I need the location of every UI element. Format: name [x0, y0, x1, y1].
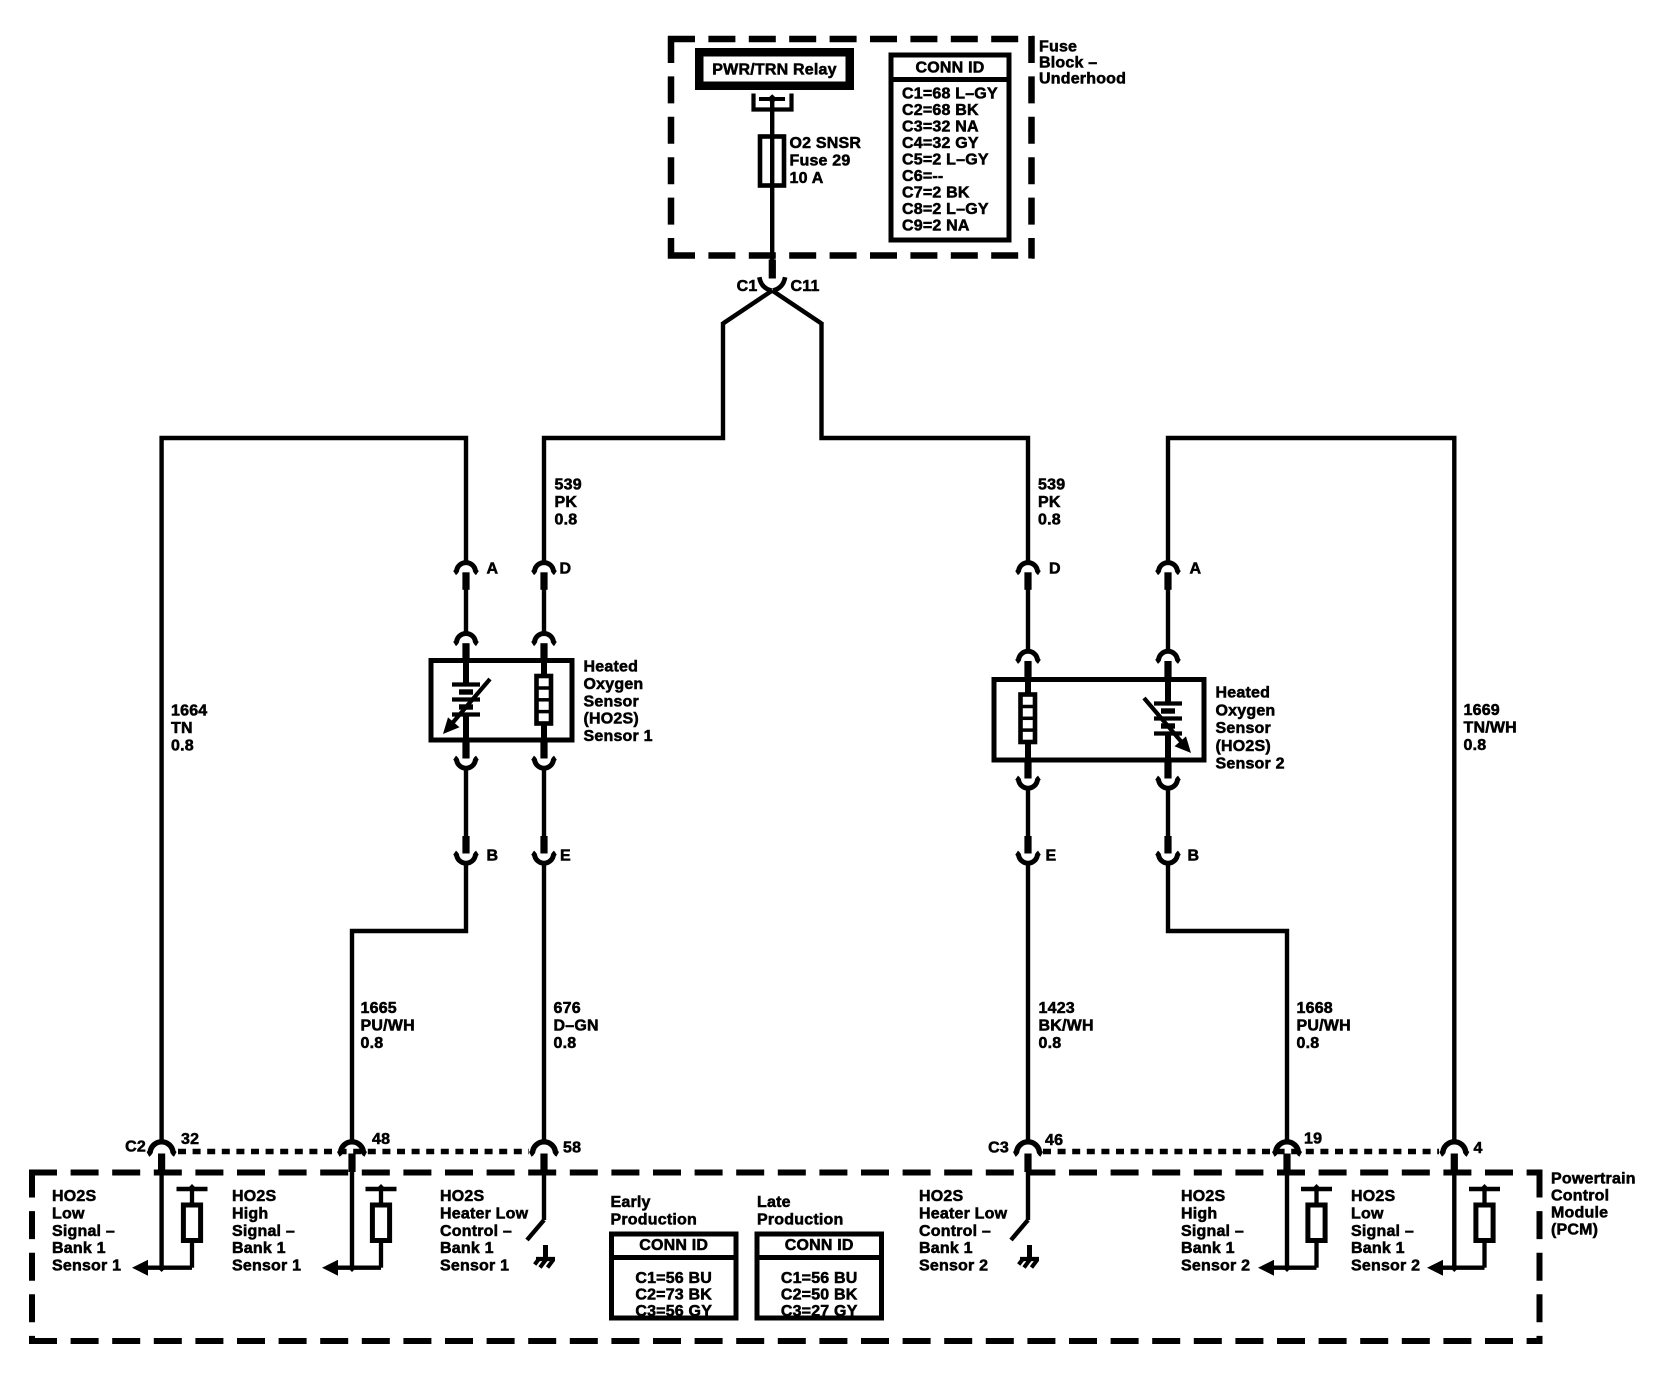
- svg-text:B: B: [487, 848, 499, 865]
- svg-text:C1=56 BU: C1=56 BU: [635, 1270, 712, 1287]
- svg-text:PWR/TRN Relay: PWR/TRN Relay: [712, 62, 836, 79]
- svg-text:Fuse: Fuse: [1039, 39, 1077, 56]
- svg-text:Sensor 1: Sensor 1: [52, 1257, 121, 1274]
- svg-text:(HO2S): (HO2S): [584, 711, 639, 728]
- svg-text:Sensor 1: Sensor 1: [232, 1257, 301, 1274]
- svg-text:HO2S: HO2S: [1181, 1188, 1225, 1205]
- svg-text:Signal –: Signal –: [232, 1223, 295, 1240]
- svg-text:C11: C11: [791, 278, 820, 295]
- svg-text:Sensor: Sensor: [1216, 720, 1271, 737]
- svg-text:Early: Early: [611, 1194, 651, 1211]
- svg-text:539: 539: [555, 477, 582, 494]
- svg-text:Bank 1: Bank 1: [1351, 1240, 1405, 1257]
- svg-text:HO2S: HO2S: [919, 1188, 963, 1205]
- svg-text:(PCM): (PCM): [1551, 1222, 1598, 1239]
- svg-text:PK: PK: [555, 494, 578, 511]
- svg-text:PK: PK: [1038, 494, 1061, 511]
- svg-text:E: E: [560, 848, 571, 865]
- svg-text:Powertrain: Powertrain: [1551, 1171, 1636, 1188]
- svg-text:PU/WH: PU/WH: [1297, 1018, 1351, 1035]
- svg-text:Late: Late: [757, 1194, 791, 1211]
- svg-text:539: 539: [1038, 477, 1065, 494]
- svg-text:BK/WH: BK/WH: [1039, 1018, 1094, 1035]
- svg-text:0.8: 0.8: [361, 1035, 384, 1052]
- svg-text:Heater Low: Heater Low: [919, 1206, 1008, 1223]
- svg-text:CONN ID: CONN ID: [785, 1237, 854, 1254]
- svg-text:High: High: [232, 1206, 268, 1223]
- svg-text:C9=2 NA: C9=2 NA: [902, 218, 970, 235]
- svg-text:C3=56 GY: C3=56 GY: [635, 1303, 712, 1320]
- svg-text:1669: 1669: [1464, 702, 1500, 719]
- svg-text:C6=--: C6=--: [902, 168, 943, 185]
- svg-text:HO2S: HO2S: [440, 1188, 484, 1205]
- svg-text:TN/WH: TN/WH: [1464, 720, 1517, 737]
- svg-text:Signal –: Signal –: [1181, 1223, 1244, 1240]
- svg-text:Heated: Heated: [584, 659, 639, 676]
- svg-text:Heated: Heated: [1216, 685, 1271, 702]
- svg-text:0.8: 0.8: [555, 512, 578, 529]
- svg-text:C8=2 L–GY: C8=2 L–GY: [902, 201, 989, 218]
- svg-text:D–GN: D–GN: [554, 1018, 599, 1035]
- svg-text:Control –: Control –: [440, 1223, 512, 1240]
- svg-text:C2=50 BK: C2=50 BK: [781, 1287, 858, 1304]
- svg-text:O2 SNSR: O2 SNSR: [790, 135, 862, 152]
- svg-text:Bank 1: Bank 1: [52, 1240, 106, 1257]
- svg-text:Sensor 2: Sensor 2: [919, 1257, 988, 1274]
- svg-text:HO2S: HO2S: [1351, 1188, 1395, 1205]
- svg-text:1423: 1423: [1039, 1000, 1075, 1017]
- svg-text:C2: C2: [125, 1139, 146, 1156]
- svg-text:Sensor: Sensor: [584, 693, 639, 710]
- svg-text:32: 32: [181, 1131, 199, 1148]
- svg-text:D: D: [560, 561, 572, 578]
- svg-text:Fuse 29: Fuse 29: [790, 153, 851, 170]
- svg-text:19: 19: [1304, 1131, 1322, 1148]
- svg-text:C2=68 BK: C2=68 BK: [902, 102, 979, 119]
- svg-text:A: A: [1190, 561, 1202, 578]
- svg-text:Oxygen: Oxygen: [584, 676, 644, 693]
- svg-text:HO2S: HO2S: [52, 1188, 96, 1205]
- svg-text:Control –: Control –: [919, 1223, 991, 1240]
- svg-text:PU/WH: PU/WH: [361, 1018, 415, 1035]
- svg-text:Production: Production: [757, 1212, 843, 1229]
- svg-text:Control: Control: [1551, 1188, 1609, 1205]
- svg-text:1668: 1668: [1297, 1000, 1333, 1017]
- svg-text:Underhood: Underhood: [1039, 71, 1126, 88]
- svg-text:676: 676: [554, 1000, 581, 1017]
- svg-text:Module: Module: [1551, 1205, 1608, 1222]
- svg-text:Low: Low: [1351, 1206, 1384, 1223]
- svg-text:C7=2 BK: C7=2 BK: [902, 185, 970, 202]
- svg-text:Sensor 2: Sensor 2: [1216, 756, 1285, 773]
- svg-text:A: A: [487, 561, 499, 578]
- svg-text:Bank 1: Bank 1: [919, 1240, 973, 1257]
- svg-text:0.8: 0.8: [171, 738, 194, 755]
- svg-text:Sensor 2: Sensor 2: [1181, 1257, 1250, 1274]
- svg-text:58: 58: [563, 1140, 581, 1157]
- svg-text:0.8: 0.8: [1038, 512, 1061, 529]
- svg-text:Sensor 2: Sensor 2: [1351, 1257, 1420, 1274]
- svg-text:1665: 1665: [361, 1000, 397, 1017]
- svg-text:(HO2S): (HO2S): [1216, 738, 1271, 755]
- svg-text:B: B: [1188, 848, 1200, 865]
- svg-text:Signal –: Signal –: [1351, 1223, 1414, 1240]
- svg-text:C3=27 GY: C3=27 GY: [781, 1303, 858, 1320]
- svg-text:C1=56 BU: C1=56 BU: [781, 1270, 858, 1287]
- svg-text:High: High: [1181, 1206, 1217, 1223]
- svg-text:4: 4: [1474, 1140, 1483, 1157]
- svg-text:C2=73 BK: C2=73 BK: [635, 1287, 712, 1304]
- svg-text:1664: 1664: [171, 703, 207, 720]
- svg-text:0.8: 0.8: [554, 1035, 577, 1052]
- svg-text:Bank 1: Bank 1: [1181, 1240, 1235, 1257]
- svg-text:CONN ID: CONN ID: [639, 1237, 708, 1254]
- svg-text:Heater Low: Heater Low: [440, 1206, 529, 1223]
- svg-text:HO2S: HO2S: [232, 1188, 276, 1205]
- svg-text:C3=32 NA: C3=32 NA: [902, 119, 979, 136]
- svg-text:Low: Low: [52, 1206, 85, 1223]
- svg-text:Bank 1: Bank 1: [232, 1240, 286, 1257]
- svg-text:10 A: 10 A: [790, 170, 824, 187]
- svg-text:C1: C1: [737, 278, 758, 295]
- svg-text:0.8: 0.8: [1039, 1035, 1062, 1052]
- svg-text:C3: C3: [988, 1140, 1009, 1157]
- svg-text:Block –: Block –: [1039, 55, 1097, 72]
- svg-text:C1=68 L–GY: C1=68 L–GY: [902, 86, 998, 103]
- svg-text:0.8: 0.8: [1464, 737, 1487, 754]
- svg-text:Production: Production: [611, 1212, 697, 1229]
- svg-text:Oxygen: Oxygen: [1216, 702, 1276, 719]
- svg-text:E: E: [1046, 848, 1057, 865]
- svg-text:0.8: 0.8: [1297, 1035, 1320, 1052]
- svg-text:C4=32 GY: C4=32 GY: [902, 135, 979, 152]
- svg-text:Signal –: Signal –: [52, 1223, 115, 1240]
- svg-text:48: 48: [372, 1131, 390, 1148]
- svg-text:C5=2 L–GY: C5=2 L–GY: [902, 152, 989, 169]
- svg-text:Sensor 1: Sensor 1: [440, 1257, 509, 1274]
- svg-text:Sensor 1: Sensor 1: [584, 728, 653, 745]
- svg-text:D: D: [1049, 561, 1061, 578]
- svg-text:Bank 1: Bank 1: [440, 1240, 494, 1257]
- svg-text:TN: TN: [171, 720, 193, 737]
- svg-text:46: 46: [1045, 1132, 1063, 1149]
- svg-text:CONN ID: CONN ID: [916, 60, 985, 77]
